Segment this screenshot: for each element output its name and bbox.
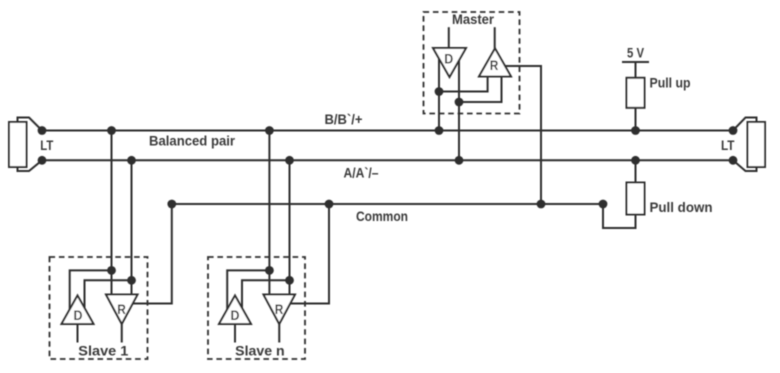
wire pull-up resistor to B	[635, 108, 637, 131]
svg-text:LT: LT	[721, 138, 735, 153]
junction dot Slave 1 left	[107, 266, 116, 275]
wire Slave n R to Common	[290, 204, 329, 304]
wire Slave 1 D output to B branch	[70, 270, 112, 309]
svg-text:A/A`/–: A/A`/–	[344, 166, 379, 181]
junction dot Slave n right	[285, 276, 294, 285]
receiver R (Slave n) triangle	[264, 295, 296, 325]
svg-text:R: R	[275, 302, 284, 317]
junction dot Master D/R right	[455, 98, 464, 107]
resistor Pull up	[627, 78, 645, 108]
wire Master R input left	[439, 77, 488, 92]
svg-text:Balanced pair: Balanced pair	[149, 134, 236, 149]
svg-text:Slave n: Slave n	[235, 343, 285, 358]
wire Slave n D output to A branch	[242, 280, 290, 308]
driver D (Master) triangle	[433, 48, 466, 77]
svg-text:Common: Common	[356, 209, 408, 224]
junction dot B slave n drop	[265, 126, 274, 135]
receiver R (Slave 1) output stub	[121, 324, 123, 343]
junction dot B master drop	[435, 126, 444, 135]
driver D (Slave n) input stub	[234, 324, 236, 343]
svg-text:Pull down: Pull down	[650, 200, 713, 215]
wire B/B'/+ (top bus line)	[42, 130, 733, 132]
receiver R (Slave 1) triangle	[106, 295, 138, 325]
junction dot B pull-up	[631, 126, 640, 135]
Slave n dashed box	[208, 257, 305, 359]
wire pull-down resistor to Common	[603, 204, 636, 228]
wire Master D output to B	[438, 59, 440, 131]
junction dot Common slave1	[167, 200, 176, 209]
svg-text:LT: LT	[40, 138, 54, 153]
junction dot A master drop	[455, 156, 464, 165]
svg-text:B/B`/+: B/B`/+	[325, 112, 363, 127]
junction dot A left LT	[38, 156, 47, 165]
svg-text:Pull up: Pull up	[650, 76, 691, 91]
wire Slave n D output to B branch	[227, 270, 269, 309]
wire A to pull-down resistor	[635, 160, 637, 182]
junction dot A slave n drop	[285, 156, 294, 165]
svg-text:D: D	[444, 52, 453, 67]
junction dot Common slave n	[325, 200, 334, 209]
wire B drop to Slave n R	[268, 131, 270, 295]
terminator LT right	[733, 118, 765, 172]
terminator LT left	[9, 118, 42, 172]
wire Master R to Common	[505, 66, 541, 204]
driver D (Slave 1) input stub	[77, 324, 79, 343]
wire Common (lower bus line)	[172, 203, 603, 205]
driver D (Slave 1) triangle	[62, 296, 94, 325]
svg-text:D: D	[231, 308, 240, 323]
driver D (Slave n) triangle	[219, 296, 251, 325]
junction dot A right LT	[729, 156, 738, 165]
svg-text:Slave 1: Slave 1	[78, 343, 128, 358]
resistor Pull down	[627, 183, 645, 215]
junction dot Slave 1 right	[127, 276, 136, 285]
svg-text:R: R	[490, 58, 499, 73]
junction dot B slave1 drop	[107, 126, 116, 135]
junction dot Common master R	[537, 200, 546, 209]
power rail 5 V bar	[622, 61, 649, 63]
wire A drop to Slave n R	[289, 160, 291, 294]
wire Master D output to A	[458, 60, 460, 160]
svg-text:Master: Master	[452, 12, 495, 27]
junction dot Master D/R left	[435, 87, 444, 96]
wire A/A'/- (middle bus line)	[42, 159, 733, 161]
svg-text:D: D	[74, 308, 83, 323]
wire A drop to Slave 1 R	[131, 160, 133, 294]
junction dot A slave1 drop	[127, 156, 136, 165]
wire B drop to Slave 1 R	[111, 131, 113, 295]
junction dot A pull-down	[631, 156, 640, 165]
wire Slave 1 R to Common	[133, 204, 172, 304]
svg-text:5 V: 5 V	[627, 46, 645, 61]
junction dot Slave n left	[265, 266, 274, 275]
driver D (Master) input stub	[448, 27, 450, 48]
wire 5V to pull-up resistor	[635, 62, 637, 78]
receiver R (Master) output stub	[494, 27, 496, 48]
receiver R (Master) triangle	[479, 48, 511, 76]
svg-text:R: R	[117, 302, 126, 317]
wire Slave 1 D output to A branch	[85, 280, 132, 308]
junction dot B right LT	[729, 126, 738, 135]
wire Master R input right	[459, 77, 502, 103]
Slave 1 dashed box	[50, 257, 148, 359]
junction dot Common pull-down	[599, 200, 608, 209]
receiver R (Slave n) output stub	[278, 324, 280, 343]
Master dashed box U-M	[424, 12, 520, 114]
junction dot B left LT	[38, 126, 47, 135]
